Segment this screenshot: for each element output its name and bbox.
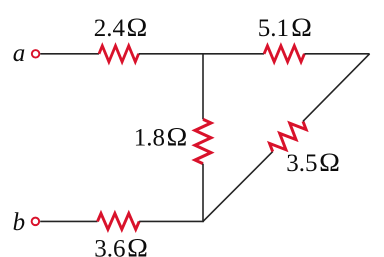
svg-text:3.5: 3.5 [286,150,317,177]
terminal b [32,218,40,226]
svg-text:Ω: Ω [167,122,188,151]
wire: terminal a to R 2.4 [40,53,99,55]
svg-text:b: b [13,209,26,236]
svg-text:2.4: 2.4 [94,15,126,42]
svg-text:1.8: 1.8 [134,124,165,151]
resistor 2.4 ohm [99,46,139,62]
resistor 5.1 ohm [264,46,304,62]
wire: bottom node up diagonal to R 3.5 [203,152,273,222]
svg-text:Ω: Ω [319,148,340,177]
wire: R 3.5 up diagonal to top-right corner [303,54,370,122]
svg-text:Ω: Ω [291,13,312,42]
wire: R 3.6 to bottom node [139,220,204,222]
svg-text:a: a [13,40,26,67]
wire: R 1.8 down to bottom node [202,164,204,222]
wire: top junction down to R 1.8 [202,53,204,119]
terminal a [32,50,40,58]
resistor 1.8 ohm [195,119,211,163]
svg-text:5.1: 5.1 [258,15,289,42]
wire: R 5.1 to top-right corner [304,53,369,55]
svg-text:Ω: Ω [127,13,148,42]
resistor 3.6 ohm [98,213,140,229]
wire: R 2.4 to R 5.1 (through top junction) [139,53,265,55]
svg-text:Ω: Ω [127,233,148,257]
svg-text:3.6: 3.6 [94,236,125,257]
wire: terminal b to R 3.6 [40,220,97,222]
resistor 3.5 ohm [267,116,309,158]
